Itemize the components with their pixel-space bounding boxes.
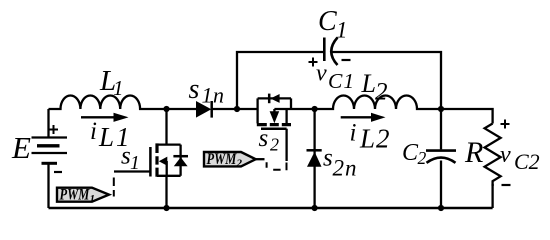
battery E plate short bottom [42,162,58,165]
svg-text:PWM: PWM [207,150,238,168]
wire left vertical top (battery to top rail corner) [47,109,49,138]
s2 body-diode loop top [258,97,291,99]
svg-text:s: s [259,125,269,152]
MOSFET s1 : drain wire [165,109,167,145]
svg-text:2: 2 [418,148,427,168]
MOSFET s2 : left(drain) stub vertical [256,98,258,123]
wire node A to diode s1n anode [167,108,197,110]
svg-text:i: i [90,118,97,145]
bottom rail [49,207,493,210]
s2 channel bars (horizontal) [257,123,291,126]
svg-text:L: L [361,69,376,98]
svg-text:1: 1 [130,153,140,174]
svg-text:v: v [500,142,511,168]
wire rail node E to resistor branch [441,109,493,124]
svg-text:PWM: PWM [60,186,91,204]
C1 minus sign [342,59,351,61]
capacitor C2 wire from node E [440,109,442,149]
svg-text:L2: L2 [359,124,391,154]
svg-text:v: v [316,61,327,87]
svg-text:1n: 1n [202,83,225,108]
s2 rail out to node C [274,108,314,110]
R minus sign [502,184,511,186]
s1 body diode cathode bar [173,155,188,158]
R plus sign [501,120,510,129]
C2 wire to bottom rail [440,161,442,209]
svg-text:s: s [323,145,333,172]
svg-text:2: 2 [270,135,279,155]
s1 source stub + loop bottom [157,175,181,177]
svg-text:1: 1 [113,76,124,100]
svg-text:C2: C2 [514,149,540,174]
battery E plate long lower [32,152,68,154]
resistor R zigzag [485,124,501,187]
s1 source wire down to bottom rail [165,176,167,208]
svg-text:2: 2 [236,157,243,169]
svg-text:C: C [402,140,419,166]
s2n triangle (apex up) [307,152,322,167]
s1 channel bars [155,143,158,176]
s2 rail in from node B [237,108,258,110]
svg-text:C1: C1 [328,69,355,93]
diode s2n wire vertical [313,109,315,208]
C1 plus sign [309,58,318,67]
svg-text:1: 1 [90,193,96,205]
s2 gate plate [261,127,287,130]
s1 body diode triangle [174,157,188,166]
C2 curved plate [427,158,456,163]
wire resistor bottom to bottom rail [491,184,493,208]
s1 gate dashed line to PWM1 [113,178,115,197]
current arrow i_L2 [341,116,374,118]
node s2n bottom [312,205,318,211]
node C2 bottom [438,205,444,211]
node B (s1n / C1 branch / s2 drain) [234,106,240,112]
current arrow i_L1 [81,116,117,118]
svg-text:2: 2 [375,79,388,106]
s1 body arrow [159,157,168,166]
wire node B up to top rail [237,52,324,109]
svg-text:2n: 2n [333,156,358,181]
s1 body diode branch [179,145,181,176]
s2 gate lead down [285,129,287,161]
capacitor C1 curved plate [331,38,337,66]
s2 gate dashed connection [267,162,287,170]
inductor L1 (4 humps) [49,96,167,109]
svg-text:s: s [189,74,200,105]
node A (L1 / s1 drain / s1n anode) [163,106,169,112]
s2 body diode cathode bar [268,94,271,104]
PWM2 flag [204,152,256,166]
wire battery bottom to bottom rail [47,163,49,208]
svg-text:C: C [318,6,337,37]
s1 drain stub + body-diode loop top [157,143,181,145]
svg-text:E: E [11,130,31,165]
s2 loop right vertical [290,98,292,109]
diode s1n [196,101,211,118]
inductor L2 (4 humps) [315,96,441,110]
wire s1n cathode to node B [212,108,237,110]
s2 source stub down to right bar [285,109,287,123]
svg-text:1: 1 [336,18,348,43]
node E (L2 right / C1 return / C2 / R) [438,106,444,112]
s2 body diode triangle [270,94,279,103]
battery plus sign [49,125,58,134]
s1 gate lead [114,170,150,172]
top rail C1 to right corner, down to node E [332,52,441,109]
s1 gate plate [149,147,152,177]
svg-text:R: R [464,136,483,169]
battery minus sign [54,171,62,173]
s2n cathode bar [307,149,322,152]
s2 body arrow (apex down) [270,111,280,123]
battery E plate long top [32,136,68,138]
node s1 source on bottom rail [163,205,169,211]
svg-text:i: i [350,120,357,147]
capacitor C1 left plate [323,38,326,62]
C2 straight plate [426,149,456,152]
wire PWM2 tip stub [256,158,265,160]
PWM1 flag [57,188,109,202]
node C (s2 source / s2n cathode / L2) [312,106,318,112]
battery E plate short thick upper [37,144,60,147]
